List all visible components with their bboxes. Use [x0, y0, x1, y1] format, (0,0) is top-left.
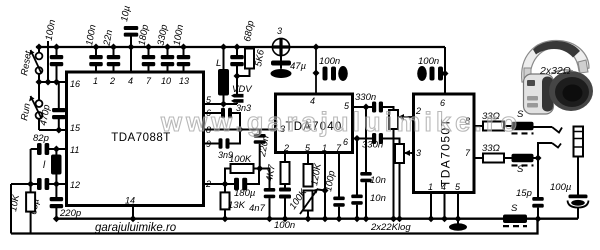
wire pin4 to ground	[444, 193, 446, 219]
junction bus / 680p column	[234, 44, 241, 51]
svg-text:2x32Ω: 2x32Ω	[539, 65, 571, 77]
junction ground bus / pot1	[390, 215, 397, 222]
junction ground / pin4	[441, 215, 448, 222]
wire pin15 row	[39, 129, 67, 131]
wire 100n cap to chip pin	[95, 65, 97, 72]
wire reset switch top to bus	[38, 47, 40, 53]
junction ground / pin1	[428, 215, 435, 222]
junction pin16 row / crossing column	[45, 79, 52, 86]
wire pin16 row	[39, 81, 67, 83]
ferrite choke S (left ch)	[512, 122, 534, 134]
resistor 10K	[26, 192, 35, 211]
headphones photo (2x32 ohm)	[522, 41, 593, 115]
wire pin5 bottom stub	[307, 153, 309, 165]
capacitor 330p (pin 10)	[161, 55, 175, 66]
wire bus corner down to TDA7050 pin6	[444, 47, 446, 94]
wire pin14 to ground bus	[132, 206, 134, 219]
svg-text:garajuluimike.ro: garajuluimike.ro	[95, 222, 177, 234]
junction pin12 row / 10K column	[27, 181, 34, 188]
junction bus / first 100n cap	[53, 44, 60, 51]
wire 10u bottom stub	[130, 36, 132, 47]
svg-text:100n: 100n	[319, 56, 340, 67]
wire stub bus to 100n cap	[95, 47, 97, 55]
junction pin6 row / 10n column	[354, 135, 361, 142]
op-amp U2 TDA7040 body	[276, 94, 353, 153]
capacitor 100p	[333, 197, 345, 207]
ferrite choke S (right ch)	[512, 154, 534, 166]
svg-text:100n: 100n	[418, 56, 439, 67]
potentiometer 100K trimmer	[300, 189, 318, 215]
wire pot1 bottom to ground	[393, 129, 395, 219]
capacitor 10n (right ch)	[351, 195, 363, 205]
wire ground bus	[56, 218, 578, 220]
wire stub pin16 row to 470p	[58, 82, 60, 108]
wire first 100n to pin16 row	[56, 65, 58, 82]
junction ground bus / 4n7	[266, 215, 273, 222]
wire stub bus to first 100n	[56, 47, 58, 55]
svg-text:2x22Klog: 2x22Klog	[370, 222, 411, 233]
svg-text:1: 1	[93, 76, 98, 86]
wire stub bus to 22n cap	[113, 47, 115, 55]
wire pin8 output row	[474, 125, 483, 127]
wire 47u plate stub	[280, 65, 282, 69]
svg-text:10n: 10n	[370, 175, 386, 186]
wire 10n column 1	[365, 107, 367, 172]
wire 3n9 to pin8 node	[230, 130, 241, 144]
antenna connector (crossed circle)	[272, 38, 289, 55]
wire antenna to 47u	[280, 56, 282, 61]
svg-text:4: 4	[128, 76, 133, 86]
junction output node	[535, 155, 542, 162]
op-amp U1 TDA7088T body	[67, 72, 204, 206]
junction ground bus / pin1	[322, 215, 329, 222]
svg-text:16: 16	[70, 79, 80, 89]
power symbol VDD double-bar	[231, 94, 244, 103]
wire pin6 row to 3n3	[204, 112, 222, 114]
inductor L (oscillator coil)	[51, 155, 62, 175]
wire outer bottom bus	[11, 219, 538, 234]
capacitor 47u electrolytic (bottom plate blob)	[271, 69, 292, 78]
svg-text:13: 13	[179, 76, 189, 86]
capacitor 3n9	[219, 138, 230, 149]
junction pin16 row / switch column	[36, 79, 43, 86]
potentiometer volume right (22K log)	[395, 144, 411, 163]
wire run switch bottom to pin15 row	[38, 119, 40, 130]
junction bus at x=113.5	[110, 44, 117, 51]
wire choke2 to node	[534, 157, 539, 159]
wire pin7 output row	[474, 157, 483, 159]
junction ground bus / 100p	[336, 215, 343, 222]
junction ground bus / 10n 2	[354, 215, 361, 222]
wire top supply bus (left section)	[36, 46, 273, 48]
wire pin1 to ground bus	[324, 153, 326, 219]
svg-text:100n: 100n	[274, 220, 295, 231]
wire reset switch bottom to pin16 row	[38, 74, 40, 82]
svg-text:VDV: VDV	[232, 84, 253, 95]
svg-text:2: 2	[109, 76, 115, 86]
junction pin5 node	[220, 101, 227, 108]
wire 10n 1 to ground	[365, 182, 367, 219]
wire 100u to ground bus	[577, 208, 579, 219]
ferrite choke S (ground line)	[503, 214, 527, 226]
wire 470p to pin15 row	[58, 118, 60, 130]
wire 10K top stub	[30, 184, 32, 192]
wire L2 to pin5 node	[223, 96, 225, 105]
svg-text:10n: 10n	[370, 193, 386, 204]
resistor 13K	[221, 192, 230, 209]
svg-text:3: 3	[416, 148, 421, 158]
svg-text:47µ: 47µ	[290, 61, 307, 72]
svg-text:82p: 82p	[33, 133, 49, 144]
wire VDD symbol to pin5 node	[236, 103, 238, 104]
wire 100K right stub	[254, 168, 260, 170]
wire 180u right up to 100K node	[246, 169, 259, 185]
resistor 100K	[231, 164, 254, 173]
junction pin2 node	[222, 181, 229, 188]
wire left edge down to bottom bus	[10, 184, 12, 234]
wire pin9 row to 3n9	[204, 143, 219, 145]
junction bus at x=148.5	[145, 44, 152, 51]
jack contact right (ring spring)	[552, 143, 561, 148]
svg-text:180µ: 180µ	[234, 188, 256, 199]
wire pot2 wiper to TDA7050 pin3	[411, 152, 414, 154]
resistor 33R bottom	[483, 154, 504, 163]
capacitor 220n	[254, 134, 266, 144]
wire 10n 2 to ground	[356, 205, 358, 219]
junction ground bus / 10n 1	[363, 215, 370, 222]
svg-text:15: 15	[70, 123, 81, 133]
wire left vertical 82p branch	[30, 149, 32, 184]
wire 5K6 top stub	[249, 47, 251, 49]
junction pin1 / wiper	[322, 187, 329, 194]
wire choke1 to jack tip contact	[534, 126, 553, 128]
wire 10K bottom stub	[30, 212, 32, 234]
switch S1 Reset	[29, 50, 42, 74]
svg-text:www.garajuluimike.ro: www.garajuluimike.ro	[160, 107, 521, 137]
junction pin6 column / side cap	[442, 70, 449, 77]
svg-text:S: S	[517, 164, 524, 175]
wire VDD node to 5K6 bottom	[237, 69, 250, 77]
svg-text:3: 3	[277, 26, 282, 36]
wire 100n cap to chip pin	[183, 65, 185, 72]
junction bus / pin4 column	[128, 44, 135, 51]
wire 3n3 to node column	[232, 113, 240, 130]
junction bus at x=183.5	[180, 44, 187, 51]
capacitor 10n (left ch)	[360, 172, 372, 182]
wire pin12 row right part	[49, 183, 67, 185]
svg-text:11: 11	[70, 145, 79, 155]
junction pin12 row / 220p column	[53, 181, 60, 188]
wire pin12 row left part	[11, 183, 37, 185]
svg-text:330n: 330n	[355, 92, 376, 103]
wire bus to TDA7040 pin4	[315, 47, 317, 94]
junction pin4 column / side cap	[313, 70, 320, 77]
junction pin11 row / coil L	[53, 146, 60, 153]
wire 4n7 branch	[260, 169, 270, 189]
wire trimmer wiper to pin1 line	[318, 190, 325, 191]
junction bus at x=167.5	[164, 44, 171, 51]
wire stub bus to 100n cap	[183, 47, 185, 55]
wire VDD node down to supply arrows	[236, 76, 238, 94]
wire 100K left to pin2 node	[225, 169, 231, 185]
svg-text:15p: 15p	[516, 188, 532, 199]
capacitor 180u electrolytic	[234, 178, 247, 191]
wire pin8 row	[204, 129, 260, 131]
wire node down to 15p	[537, 158, 539, 197]
svg-text:6: 6	[343, 137, 348, 147]
switch S2 Run	[29, 96, 42, 119]
wire 10n column 2	[356, 139, 358, 195]
wire pin5 output row	[353, 106, 373, 108]
wire stub bus to 330p cap	[167, 47, 169, 55]
wire 330p cap to chip pin	[167, 65, 169, 72]
svg-text:33Ω: 33Ω	[482, 143, 500, 154]
wire trimmer bottom to ground	[307, 211, 309, 219]
junction ground / pin5	[455, 215, 462, 222]
wire 220n to 100K junction	[259, 144, 261, 169]
junction VDD node	[234, 73, 241, 80]
svg-text:2: 2	[283, 143, 289, 153]
svg-text:L: L	[216, 58, 221, 69]
svg-text:100µ: 100µ	[550, 182, 572, 193]
wire top supply bus (right section, antenna to TDA7050 column)	[290, 46, 446, 48]
op-amp U3 TDA7050T body	[414, 94, 475, 193]
wire pin4 column bus to chip	[130, 47, 132, 72]
wire stub bus to 180p cap	[148, 47, 150, 55]
wire node column crossing bus to pin16 row	[47, 41, 49, 82]
wire pin5 to ground blob	[457, 193, 459, 225]
junction pin5 row / 10n column	[363, 104, 370, 111]
wire 680p stub from bus	[236, 47, 238, 55]
wire 680p to VDD node	[236, 65, 238, 76]
capacitor 100n (pin 13)	[177, 55, 191, 66]
wire pot1 wiper to TDA7050 pin2	[411, 116, 414, 118]
capacitor 100n (TDA7040 supply)	[323, 66, 348, 81]
wire 220p top stub	[55, 184, 57, 197]
wire 330n to pot2	[383, 139, 400, 145]
junction pin8 node	[237, 126, 244, 133]
capacitor 180p (pin 7)	[142, 55, 156, 66]
wire 180p cap to chip pin	[148, 65, 150, 72]
wire 33R to choke1	[504, 125, 512, 127]
wire pin2 stub	[284, 153, 286, 163]
capacitor 47u electrolytic (top plate)	[271, 61, 291, 66]
wire node up to ring contact	[538, 143, 552, 158]
svg-text:1: 1	[322, 143, 327, 153]
capacitor 220p	[50, 197, 64, 208]
wire 13K to ground bus	[224, 209, 226, 218]
resistor 4K7	[281, 162, 290, 184]
wire run switch top to pin16 row	[38, 82, 40, 100]
junction ground bus / 15p / bottom bus	[535, 215, 542, 222]
svg-text:4: 4	[310, 96, 315, 106]
wire pin5 row	[204, 103, 238, 105]
junction ground bus / trimmer	[305, 215, 312, 222]
svg-text:12: 12	[70, 180, 80, 190]
svg-text:1: 1	[428, 182, 433, 192]
wire 100p to ground bus	[338, 207, 340, 219]
wire 4n7 to ground bus	[269, 198, 271, 219]
junction ground bus under 4K7	[282, 215, 289, 222]
junction ground bus left end	[53, 215, 60, 222]
capacitor 330n (right ch)	[372, 133, 383, 144]
wire 4K7 to cap	[284, 184, 286, 188]
junction bus / L2 column	[220, 44, 227, 51]
wire 13K top stub	[224, 184, 226, 192]
wire 33R to choke2	[504, 157, 512, 159]
wire jack sleeve down	[577, 157, 579, 195]
jack contact left (tip spring)	[552, 127, 562, 133]
junction bus / pin4 column	[313, 44, 320, 51]
svg-text:S: S	[511, 203, 518, 214]
wire pot2 bottom to ground	[399, 163, 401, 219]
resistor 33R top	[483, 122, 504, 131]
capacitor 68u	[37, 178, 49, 190]
capacitor 100n (TDA7050 supply)	[417, 66, 443, 81]
wire pin11 row left part	[31, 148, 37, 150]
svg-text:10: 10	[161, 76, 171, 86]
ground symbol (blob under pin5)	[449, 223, 467, 231]
potentiometer volume left (22K log)	[389, 110, 411, 129]
junction pin16 row / 100n cap	[53, 79, 60, 86]
wire pin11 row right part	[49, 148, 67, 150]
svg-text:14: 14	[125, 196, 135, 206]
junction ground bus / pot2	[396, 215, 403, 222]
wire coil top stub	[55, 149, 57, 155]
capacitor 470p	[52, 108, 66, 119]
capacitor 100n (under 4K7)	[279, 188, 291, 199]
wire pin1 to ground	[430, 193, 432, 219]
svg-text:100K: 100K	[229, 154, 252, 165]
wire 22n cap to chip pin	[113, 65, 115, 72]
capacitor 3n3	[221, 108, 232, 119]
junction 100K right node	[256, 165, 263, 172]
capacitor 100n (supply decoupling at pin16)	[50, 55, 64, 66]
wire pin6 output row	[353, 138, 373, 140]
connector headphone jack	[574, 127, 584, 157]
wire pin8 node to TDA7040 pin3	[260, 129, 276, 131]
svg-text:4n7: 4n7	[249, 203, 266, 214]
capacitor 330n (left ch)	[372, 102, 383, 113]
capacitor 22n (pin 2)	[107, 55, 121, 66]
capacitor 10u electrolytic	[124, 26, 139, 37]
wire pin2 row	[204, 183, 235, 185]
resistor 5K6	[245, 49, 254, 69]
capacitor 680p	[230, 55, 244, 66]
capacitor 4n7	[264, 188, 276, 198]
junction pin15 row / 470p	[55, 127, 62, 134]
svg-text:13K: 13K	[228, 200, 246, 211]
junction bus / reset column	[36, 44, 43, 51]
wire pin8 node down via 220n	[259, 130, 261, 135]
capacitor 100n (pin 1)	[89, 55, 103, 66]
wire pin7 stub down	[338, 153, 340, 197]
inductor L2 (VCO coil)	[218, 69, 229, 96]
resistor 120K	[304, 164, 313, 187]
wire 330n to pot1	[383, 107, 394, 110]
junction bus at x=96	[93, 44, 100, 51]
wire L2 column from bus	[223, 47, 225, 69]
svg-text:220p: 220p	[59, 208, 81, 219]
junction ground bus / 13K	[222, 215, 229, 222]
junction ground bus / pin14	[130, 215, 137, 222]
svg-text:4: 4	[441, 182, 446, 192]
capacitor 82p	[37, 143, 49, 155]
capacitor 100u electrolytic	[568, 195, 589, 208]
wire 220p to ground bus	[55, 207, 57, 219]
wire coil bottom stub	[55, 175, 57, 185]
wire cap to ground bus	[284, 199, 286, 219]
wire 15p to ground bus	[537, 208, 539, 219]
capacitor 15p	[532, 197, 544, 208]
